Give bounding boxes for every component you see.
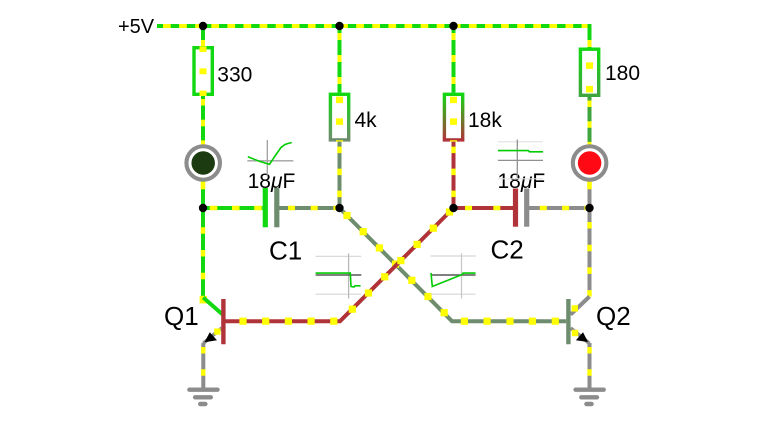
value label 18k xyxy=(468,109,502,132)
resistor R4 180 xyxy=(580,48,598,98)
svg-text:C1: C1 xyxy=(269,236,302,266)
wire rail to R2 top xyxy=(338,26,342,93)
wire node C to C2 left xyxy=(454,206,514,210)
wire rail corner to R4 top xyxy=(588,24,592,48)
transistor Q2 xyxy=(568,297,589,345)
wire LED1 to node A xyxy=(201,182,205,209)
label +5V xyxy=(118,16,155,38)
scope plot Q2 collector xyxy=(431,253,476,298)
wire C1 right to node B xyxy=(279,206,340,210)
scope plot C2 voltage xyxy=(498,140,543,180)
svg-text:C2: C2 xyxy=(491,235,524,265)
name label C1 xyxy=(269,236,302,266)
transistor Q1 xyxy=(203,298,223,345)
junction node B xyxy=(335,204,343,212)
wire rail to R3 top xyxy=(452,26,456,93)
svg-text:4k: 4k xyxy=(355,109,378,132)
wire Q1 emitter to ground xyxy=(201,343,205,389)
wire node D down to Q2 collector xyxy=(588,208,592,297)
scope plot C1 voltage xyxy=(247,140,293,176)
capacitor C1 18uF xyxy=(265,188,277,227)
value label 330 xyxy=(217,64,252,87)
svg-text:+5V: +5V xyxy=(118,16,155,38)
wire R1 to LED1 xyxy=(201,96,205,145)
junction node rail-R3 xyxy=(449,22,457,30)
resistor R3 18k xyxy=(444,93,462,142)
LED D1 (green, dark/off) xyxy=(186,146,220,180)
wire LED2 to node D xyxy=(588,182,592,209)
wire diagonal node C to Q1 base (red) xyxy=(226,208,454,325)
ground (right) xyxy=(576,390,604,404)
wire R3 to node C xyxy=(452,142,456,208)
resistor R1 330 xyxy=(194,46,212,96)
wire C2 right to node D xyxy=(529,206,590,210)
svg-text:18μF: 18μF xyxy=(248,170,296,193)
name label Q2 xyxy=(596,301,631,331)
junction node rail-R2 xyxy=(335,22,343,30)
svg-text:Q1: Q1 xyxy=(164,301,199,331)
wire R4 to LED2 xyxy=(588,97,592,145)
svg-text:330: 330 xyxy=(217,64,252,87)
scope plot Q1 collector xyxy=(316,253,362,298)
junction node rail-R1 xyxy=(199,22,207,30)
ground (left) xyxy=(189,390,217,404)
svg-text:18k: 18k xyxy=(468,109,502,132)
value label 180 xyxy=(605,62,640,85)
resistor R2 4k xyxy=(330,93,348,142)
junction node C xyxy=(449,204,457,212)
wire top rail xyxy=(157,24,590,28)
value label 4k xyxy=(355,109,378,132)
junction node A xyxy=(199,204,207,212)
wire R2 to node B xyxy=(338,142,342,208)
capacitor C2 18uF xyxy=(516,189,527,227)
svg-text:18μF: 18μF xyxy=(498,170,546,193)
name label C2 xyxy=(491,235,524,265)
svg-text:180: 180 xyxy=(605,62,640,85)
wire node A down to Q1 collector xyxy=(200,208,207,303)
value label 18uF (C1) xyxy=(248,170,296,193)
wire rail to R1 top xyxy=(201,26,205,46)
name label Q1 xyxy=(164,301,199,331)
junction node D xyxy=(585,204,593,212)
value label 18uF (C2) xyxy=(498,170,546,193)
LED D2 (red, lit) xyxy=(573,146,607,180)
wire diagonal node B to Q2 base (olive) xyxy=(340,208,567,325)
svg-text:Q2: Q2 xyxy=(596,301,631,331)
wire Q2 emitter to ground xyxy=(588,343,592,389)
wire node A to C1 left xyxy=(203,206,263,210)
